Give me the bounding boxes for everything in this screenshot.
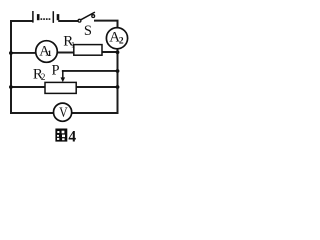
junction dot right slider row bbox=[116, 69, 120, 73]
voltmeter V bbox=[54, 103, 72, 121]
ammeter A2 bbox=[106, 28, 127, 49]
wire slider row: P to right vertical bbox=[63, 70, 118, 72]
slider wiper arrow bbox=[61, 70, 66, 82]
wire A1 to R1 bbox=[58, 52, 74, 54]
wire R2 row: left vertical to R2 bbox=[11, 86, 45, 88]
wire top row (battery segment) bbox=[11, 20, 32, 22]
caption: hand-drawn bold 图 glyph bbox=[55, 129, 67, 142]
wire A2 bottom to bottom-right corner bbox=[117, 49, 119, 114]
ammeter A1 bbox=[36, 41, 58, 63]
svg-text:1: 1 bbox=[71, 40, 75, 50]
switch lever bbox=[81, 12, 95, 20]
battery dashed cells dots bbox=[41, 18, 51, 20]
svg-text:1: 1 bbox=[47, 48, 51, 58]
battery long plate 1 bbox=[32, 11, 34, 23]
rheostat R2 box bbox=[45, 82, 76, 93]
wire bottom row left of V bbox=[11, 112, 54, 114]
svg-text:V: V bbox=[59, 104, 68, 120]
wire switch to top-right corner bbox=[95, 21, 118, 28]
resistor R1 box bbox=[74, 45, 102, 56]
wire A1 row: left vertical to A1 bbox=[11, 52, 36, 54]
switch pivot circle bbox=[78, 19, 81, 22]
svg-text:P: P bbox=[52, 63, 60, 79]
svg-text:S: S bbox=[84, 23, 92, 39]
svg-text:2: 2 bbox=[41, 72, 46, 82]
junction dot left R2 row bbox=[9, 85, 13, 89]
junction dot right R2 row bbox=[116, 85, 120, 89]
wire left vertical bbox=[10, 21, 12, 113]
battery short plate 2 bbox=[57, 14, 60, 20]
wire R2 to right vertical bbox=[76, 86, 117, 88]
battery cells bbox=[33, 11, 58, 23]
switch S bbox=[78, 12, 95, 22]
battery long plate 2 bbox=[52, 11, 54, 23]
svg-text:2: 2 bbox=[119, 37, 124, 47]
junction dot right R1 row bbox=[116, 50, 120, 54]
battery short plate 1 bbox=[37, 14, 40, 20]
wire R1 to right vertical bbox=[102, 51, 118, 53]
wire bottom row right of V bbox=[72, 112, 118, 114]
wire battery to switch bbox=[59, 20, 77, 22]
switch right circle bbox=[92, 15, 95, 18]
svg-text:4: 4 bbox=[68, 129, 76, 144]
junction dot left A1 row bbox=[9, 51, 13, 55]
